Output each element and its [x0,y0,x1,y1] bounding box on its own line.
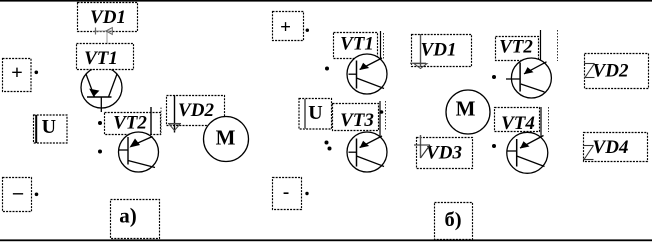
node dot left of VT1 [325,67,329,71]
node dot lower near VT2 [98,150,102,154]
motor M (b) [446,90,490,134]
svg-text:U: U [308,102,322,124]
node dot below U [325,141,329,145]
label box VT3 [333,104,379,132]
svg-text:+: + [11,62,23,84]
wire right of VT1 box (b) [379,31,384,59]
plus terminal box [3,59,32,92]
motor M [204,117,249,162]
wire through VD1 box (b) [420,34,422,67]
plus terminal box (b) [273,12,304,41]
svg-text:-: - [283,182,289,203]
diode VD3 symbol [414,145,430,158]
svg-text:VT4: VT4 [501,113,535,134]
svg-text:M: M [216,126,236,150]
label box VD2 (b) [585,54,649,89]
diode VD1 symbol (b) [410,63,427,68]
svg-text:VD2: VD2 [178,100,214,121]
transistor VT2 [119,132,159,172]
node dot left of VT3 [328,147,332,151]
wire below VD1 [106,32,108,45]
node dot right of plus (b) [306,29,309,32]
svg-text:VD1: VD1 [90,7,126,28]
svg-text:VD2: VD2 [593,61,629,82]
wire right of VT3 box [380,101,386,137]
caption box a) [111,200,160,239]
wire right of VT2 box (b) [541,30,559,63]
svg-text:а): а) [119,204,137,228]
svg-text:VT1: VT1 [340,34,374,55]
label box VD1 (b) [412,35,472,67]
node dot right of minus [35,193,39,197]
diode VD2 symbol (b) [584,64,595,78]
node dot right of M bottom [492,144,496,148]
svg-text:VT1: VT1 [84,48,118,69]
svg-text:б): б) [444,209,461,231]
wire through VD3 box [420,135,422,158]
diode VD2 symbol [168,124,181,131]
label box VT1 (b) [334,33,378,59]
label box VD2 [167,96,225,126]
svg-text:VT2: VT2 [113,113,147,134]
node dot right of minus (b) [305,192,308,195]
svg-text:VT2: VT2 [499,37,533,58]
svg-text:VD4: VD4 [593,137,629,158]
transistor VT2 (b) [506,58,551,98]
transistor VT4 [507,132,548,173]
top border line [0,0,652,2]
svg-text:M: M [456,97,476,121]
wire through VD2 box [174,95,176,133]
wire right of VT2 box [150,107,152,135]
minus terminal box (b) [273,178,302,210]
label box U [34,115,68,143]
svg-text:VD3: VD3 [426,143,462,164]
svg-text:U: U [42,116,56,138]
transistor VT1 [81,67,122,112]
wire right of VT4 box [541,107,549,137]
svg-text:+: + [280,17,291,38]
svg-text:–: – [12,182,24,204]
label box VT2 (b) [496,37,539,61]
label box VT1 [77,44,134,70]
node dot right of plus [35,71,39,75]
diode VD1 symbol [94,28,113,35]
caption box b) [435,203,473,240]
node dot right of M top [492,75,496,79]
bottom border line [0,239,652,241]
transistor VT3 [347,132,387,172]
svg-text:VD1: VD1 [421,40,457,61]
label box VT2 [105,113,161,135]
svg-text:VT3: VT3 [340,110,374,131]
node dot upper near VT2 [98,121,102,125]
diode VD4 symbol [583,146,594,160]
transistor VT1 (b) [347,54,387,94]
label box VT4 [495,108,540,135]
label box VD3 [417,138,473,169]
minus terminal box [3,178,32,212]
label box U (b) [299,99,332,130]
label box VD4 [584,133,648,162]
label box VD1 [78,3,138,32]
